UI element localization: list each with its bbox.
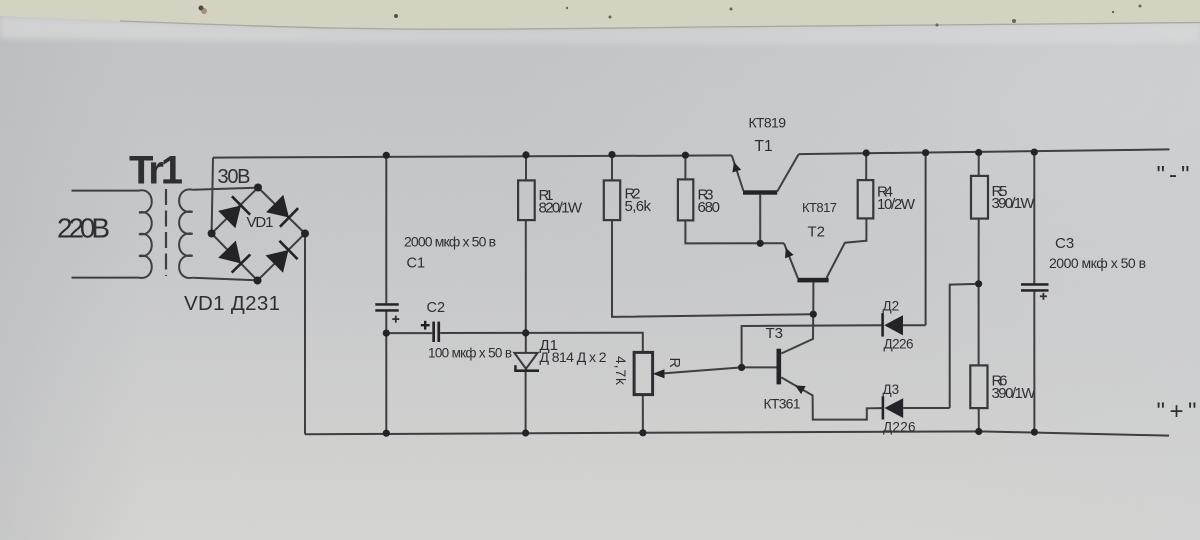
node: bridge left corner (208, 230, 216, 238)
svg-text:Д226: Д226 (883, 420, 916, 435)
wire: pot bottom lead (642, 395, 644, 433)
wire: R5 top lead (978, 153, 980, 177)
transistor T1 КТ819 (732, 115, 799, 244)
wire: R1 top lead (525, 155, 527, 181)
svg-text:Т3: Т3 (766, 325, 784, 342)
node: R5/R6/Д3 junction (975, 280, 982, 287)
diode VD1a (upper-left arm) (218, 196, 250, 228)
svg-text:5,6k: 5,6k (625, 198, 652, 215)
wire: T1 collector diagonal (777, 154, 798, 191)
C3 polarity plus (1040, 293, 1047, 300)
node: top bus / C1 (383, 152, 390, 159)
svg-text:R: R (666, 358, 682, 368)
wire: drop from top bus to bridge left corner (212, 158, 213, 234)
node: bridge right corner (301, 230, 309, 238)
node: top bus / R1 (522, 151, 529, 158)
wire: Д1 bottom lead (525, 372, 527, 433)
wire: T3 base up and over to Д2 (742, 325, 882, 367)
svg-text:10/2W: 10/2W (877, 196, 916, 213)
resistor R3 (678, 155, 784, 243)
svg-text:" - ": " - " (1157, 162, 1190, 189)
svg-text:" + ": " + " (1157, 398, 1197, 425)
wire: secondary top lead (193, 188, 258, 190)
svg-text:VD1: VD1 (247, 214, 274, 231)
wire: T1 emitter diagonal (732, 155, 744, 190)
wire: R1 bottom lead down to zener (525, 220, 527, 353)
wire: C2 left lead (386, 332, 432, 334)
node: top bus / Д2 riser (922, 149, 929, 156)
svg-text:Tr1: Tr1 (129, 149, 183, 193)
svg-text:220В: 220В (57, 213, 110, 244)
svg-text:100 мкф x 50 в: 100 мкф x 50 в (428, 346, 512, 361)
T1 base bar (743, 190, 777, 194)
wire: pot top lead from C2/Д1 node (526, 333, 643, 353)
transformer core (dashed) (165, 189, 167, 276)
wire: T3 collector to T2 base node (781, 314, 813, 353)
svg-text:680: 680 (698, 199, 721, 216)
wire: primary top lead (72, 190, 140, 192)
wire: T2 emitter diagonal (784, 243, 798, 278)
svg-text:Д2: Д2 (883, 299, 900, 314)
capacitor C3 (1021, 152, 1146, 432)
resistor R6 (970, 284, 1036, 432)
node: bottom bus / C3 (1031, 429, 1038, 436)
svg-text:Т1: Т1 (755, 138, 773, 155)
diode VD1d (lower-right arm) (266, 241, 298, 273)
svg-text:30В: 30В (218, 166, 251, 188)
svg-text:КТ817: КТ817 (802, 200, 837, 215)
wire: R3 bottom lead to T1 base / T2 emitter (685, 220, 784, 243)
svg-text:VD1 Д231: VD1 Д231 (184, 292, 280, 315)
wire: C1 lower stem (385, 312, 387, 434)
wire: C3 lower stem (1033, 292, 1035, 433)
svg-text:390/1W: 390/1W (992, 385, 1037, 402)
T3 body bar (777, 349, 782, 385)
wire: top bus left segment (213, 155, 732, 157)
svg-text:390/1W: 390/1W (992, 195, 1036, 212)
wire: R3 top lead (684, 155, 686, 179)
diode Д3 (882, 284, 979, 435)
wire: bridge edge bottom-right (258, 234, 306, 281)
T1 emitter arrow (732, 162, 741, 172)
wire: Д2 cathode to vertical riser (903, 324, 926, 326)
primary winding (139, 190, 152, 278)
svg-text:КТ819: КТ819 (749, 115, 787, 131)
wire: R5 bottom lead (978, 219, 980, 284)
wire: secondary bottom lead (193, 278, 258, 281)
svg-text:C3: C3 (1055, 235, 1074, 252)
transistor T3 КТ361 (742, 314, 882, 419)
capacitor C1 (375, 155, 496, 433)
node: T1 base / R3 junction (757, 240, 764, 247)
svg-text:Д3: Д3 (883, 382, 900, 397)
node: T2 base / R2 / T3 collector junction (810, 311, 817, 318)
node: top bus / C3 (1031, 149, 1038, 156)
wire: bridge edge left-top (212, 188, 258, 234)
transformer Tr1 (72, 188, 259, 281)
wire: R4 top lead (865, 153, 867, 180)
svg-text:4,7k: 4,7k (613, 356, 629, 386)
node: T3 base / wiper junction (738, 364, 745, 371)
resistor R5 (971, 153, 1035, 284)
node: bottom bus / R6 (975, 428, 982, 435)
wire: pot wiper to T3 base (663, 367, 741, 373)
resistor R4 (858, 153, 916, 218)
wire: Д3 riser to R5/R6 node (950, 284, 979, 408)
node: C2/R1/Д1 junction (522, 329, 529, 336)
svg-text:КТ361: КТ361 (764, 396, 801, 412)
resistor R1 (518, 155, 583, 353)
C1 polarity plus (392, 316, 399, 323)
wire: top bus right segment (799, 149, 1170, 154)
node: top bus / R3 (682, 152, 689, 159)
wire: Д2 riser to top bus (925, 153, 927, 326)
node: top bus / R2 (608, 151, 615, 158)
potentiometer R 4,7k (526, 333, 742, 433)
wire: R6 bottom lead (978, 408, 980, 431)
wire: R2 top lead (611, 155, 613, 181)
transistor T2 КТ817 (784, 200, 866, 314)
node: bridge top corner (254, 184, 262, 192)
wire: T3 base lead (742, 366, 777, 368)
wire: C2 right lead (440, 332, 526, 334)
capacitor C2 (386, 300, 525, 361)
wire: C1 upper stem (385, 155, 387, 303)
zener diode Д1 (514, 337, 607, 433)
wire: C3 upper stem (1033, 152, 1035, 283)
wire: bridge right corner down to bottom bus (304, 234, 306, 435)
bridge rectifier VD1 (184, 184, 309, 316)
wire: R2 bottom lead to T2 base node (612, 220, 813, 317)
svg-text:2000 мкф x 50 в: 2000 мкф x 50 в (404, 234, 496, 250)
wire: Д3 cathode to riser (903, 407, 950, 409)
diode VD1c (lower-left arm) (218, 241, 250, 273)
wire: primary bottom lead (72, 277, 140, 279)
svg-text:2000 мкф x 50 в: 2000 мкф x 50 в (1049, 255, 1146, 271)
resistor R2 (604, 155, 814, 317)
wire: R6 top lead (978, 284, 980, 366)
wire: T3 emitter path to Д3 (781, 377, 881, 419)
wire: bridge edge left-bottom (212, 234, 258, 281)
diode VD1b (upper-right arm) (266, 195, 298, 227)
wire: bridge edge top-right (258, 188, 305, 234)
T2 emitter arrow (785, 248, 794, 259)
T2 base bar (797, 278, 828, 283)
node: C1/C2 junction (383, 330, 390, 337)
node: top bus / R4 (863, 149, 870, 156)
node: bottom bus / pot (639, 429, 646, 436)
node: bottom bus / C1 (383, 430, 390, 437)
svg-text:Т2: Т2 (808, 224, 826, 241)
node: top bus / R5 (975, 149, 982, 156)
diode Д2 (881, 153, 925, 352)
C2 polarity plus (421, 321, 430, 330)
svg-text:C2: C2 (427, 300, 446, 316)
wire: bottom bus (305, 431, 1169, 435)
node: bottom bus / Д1 (522, 429, 529, 436)
svg-text:Д 814 Д x 2: Д 814 Д x 2 (540, 349, 607, 365)
pot wiper arrow (653, 369, 665, 378)
wire: T2 collector path from R4 (827, 218, 867, 278)
svg-text:C1: C1 (407, 256, 426, 272)
svg-text:820/1W: 820/1W (539, 200, 583, 217)
T3 emitter arrow (795, 385, 806, 394)
secondary winding (179, 189, 193, 278)
svg-text:Д226: Д226 (884, 337, 914, 352)
wire: T1 base lead (759, 195, 761, 244)
wire: T2 base lead (812, 282, 814, 314)
node: bridge bottom corner (254, 277, 262, 285)
